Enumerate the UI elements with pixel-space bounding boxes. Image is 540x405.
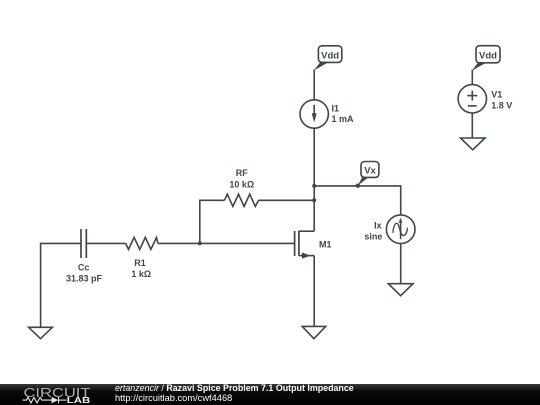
ground (below Ix): [388, 284, 413, 296]
wire Vx node to Ix top: [314, 186, 401, 215]
net Vdd flag (top center): [314, 46, 342, 71]
transistor M1 (NMOS): [295, 231, 315, 259]
svg-text:http://circuitlab.com/cwf4468: http://circuitlab.com/cwf4468: [115, 393, 232, 403]
svg-text:Cc: Cc: [78, 263, 90, 273]
svg-text:sine: sine: [364, 231, 382, 241]
wire RF left lead and vertical to gate net: [200, 200, 225, 243]
svg-text:R1: R1: [134, 258, 146, 268]
current source I1: [300, 100, 328, 128]
svg-text:LAB: LAB: [67, 395, 91, 405]
svg-text:31.83 pF: 31.83 pF: [66, 274, 103, 284]
wire ground to Cc left plate: [41, 243, 81, 327]
wire Vdd flag to V1 top: [471, 70, 473, 85]
ground (below V1): [461, 138, 486, 150]
wire R1 to M1 gate: [158, 242, 295, 244]
junction at node Vx on rail: [312, 184, 316, 188]
resistor RF: [225, 194, 259, 206]
svg-text:I1: I1: [332, 104, 340, 114]
capacitor Cc: [81, 229, 86, 258]
wire M1 source to ground: [313, 256, 315, 327]
svg-text:Vx: Vx: [364, 166, 376, 177]
svg-text:Ix: Ix: [374, 220, 382, 230]
wire V1 bottom to ground: [471, 113, 473, 138]
wire RF right lead to rail: [259, 199, 315, 201]
net Vdd flag (at V1): [472, 46, 500, 71]
net Vx flag: [356, 162, 379, 188]
junction at RF right on rail: [312, 198, 316, 202]
svg-text:RF: RF: [236, 168, 248, 178]
voltage source V1: [458, 85, 486, 113]
wire Ix bottom to ground: [400, 244, 402, 284]
svg-text:M1: M1: [319, 239, 332, 249]
svg-text:1.8 V: 1.8 V: [491, 100, 512, 110]
wire Cc right plate to R1: [86, 242, 125, 244]
resistor R1: [126, 237, 158, 249]
ground (left, below Cc input): [29, 327, 53, 338]
svg-text:V1: V1: [491, 89, 502, 99]
CircuitLab logo resistor-diode line and LAB: [23, 397, 67, 403]
svg-text:1 kΩ: 1 kΩ: [131, 269, 151, 279]
svg-text:ertanzencir / Razavi Spice Pro: ertanzencir / Razavi Spice Problem 7.1 O…: [115, 383, 354, 393]
svg-text:1 mA: 1 mA: [332, 114, 355, 124]
wire I1 bottom to M1 drain: [313, 128, 315, 231]
wire Vdd flag to I1 top: [313, 70, 315, 100]
ground (below M1 source): [302, 326, 326, 338]
svg-text:10 kΩ: 10 kΩ: [229, 179, 254, 189]
junction at R1/RF node: [198, 241, 202, 245]
svg-text:Vdd: Vdd: [321, 50, 339, 61]
svg-text:Vdd: Vdd: [479, 50, 497, 61]
footer bar: [0, 384, 540, 405]
current source Ix (sine): [386, 215, 415, 244]
